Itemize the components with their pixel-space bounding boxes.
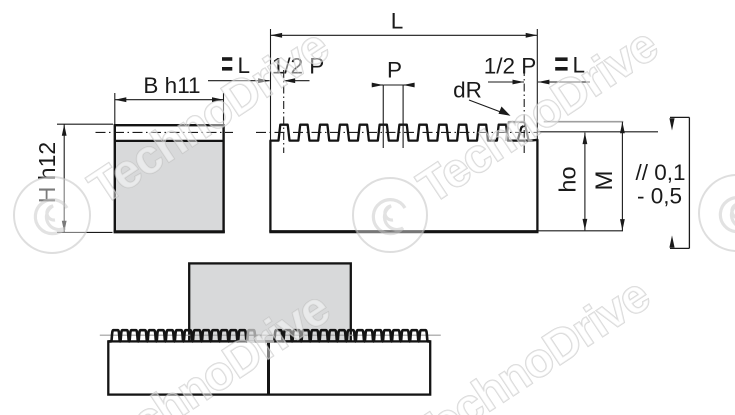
H h12 dimension: [57, 123, 113, 125]
gauge block: [189, 263, 351, 341]
ho dimension: [584, 133, 586, 231]
svg-text:P: P: [387, 58, 402, 83]
svg-text:1/2 P: 1/2 P: [484, 54, 537, 79]
svg-text:// 0,1: // 0,1: [635, 160, 685, 185]
rack bottom thick: [269, 230, 538, 233]
svg-text:ho: ho: [555, 166, 581, 192]
= L right: [555, 57, 567, 61]
= L left label and line: [222, 57, 232, 61]
section body gray fill: [115, 142, 224, 231]
B h11 dimension: [114, 93, 116, 124]
bottom extension right: [539, 230, 624, 232]
gray joint tooth dR: [506, 122, 533, 141]
section outline: [115, 125, 224, 232]
partial cut tooth black stub: [518, 126, 524, 141]
section bottom thick: [114, 230, 225, 233]
tip extension gray line (M ref): [544, 121, 624, 123]
pitch line solid extension right: [537, 131, 658, 133]
dash-dot centerline rack: [256, 131, 537, 133]
joint line: [267, 341, 270, 394]
M dimension: [621, 122, 623, 231]
joint root gray patch: [246, 340, 275, 343]
svg-text:B h11: B h11: [143, 73, 200, 98]
bottom teeth gray joint: [247, 330, 274, 341]
bottom pitch line: [100, 334, 441, 336]
rack outline with teeth: [270, 125, 537, 232]
svg-text:- 0,5: - 0,5: [637, 184, 682, 209]
parallelism bracket: [688, 117, 690, 248]
svg-text:L: L: [391, 9, 404, 34]
L dimension: [270, 29, 272, 140]
svg-text:dR: dR: [453, 78, 482, 103]
dash-dot centerline section: [96, 131, 234, 133]
bottom teeth black left: [108, 330, 247, 341]
rack bodies: [108, 341, 430, 394]
svg-text:M: M: [591, 171, 618, 191]
bottom teeth black right: [274, 330, 430, 341]
band line: [115, 140, 224, 142]
